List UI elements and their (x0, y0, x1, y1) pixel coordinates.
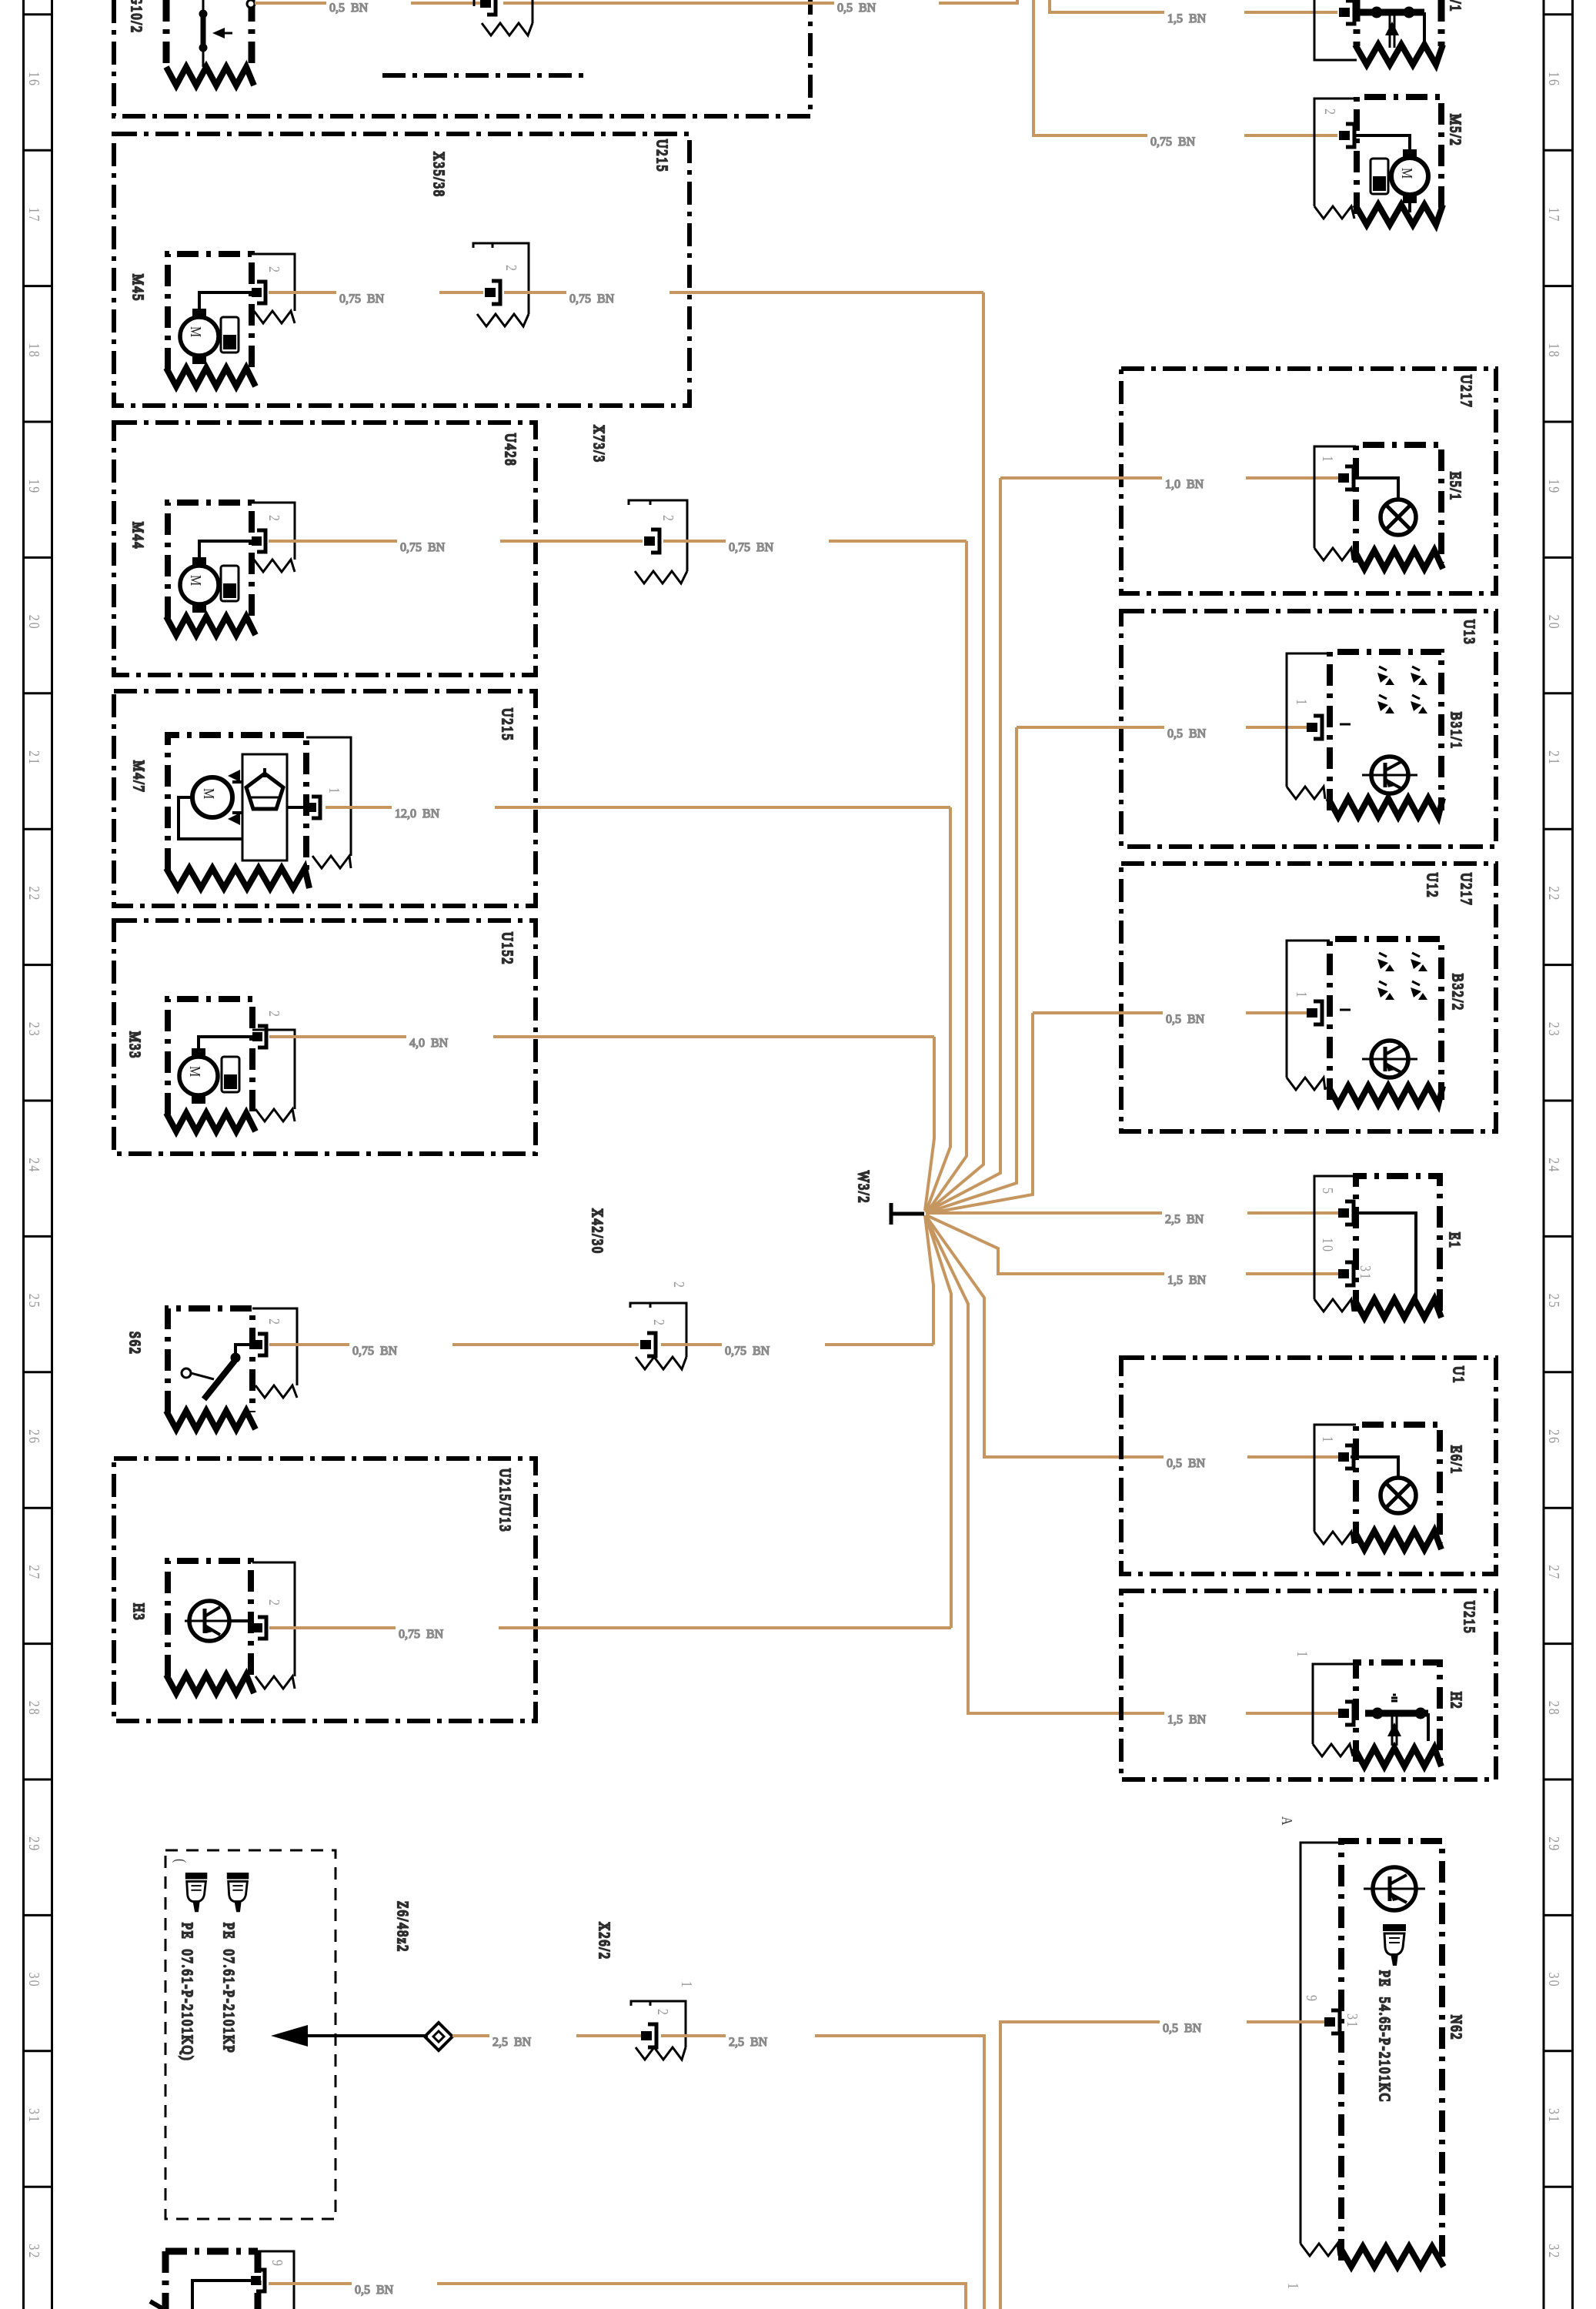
wire label 0,5 BN (left) (329, 2, 369, 15)
pin number 2 (M5/2) (1322, 109, 1339, 116)
ground sawtooth under E6/1 (1354, 1531, 1441, 1549)
wire 2,5 BN W3/2 to E1 pin 5 (926, 1211, 1338, 1215)
dash-dot separator line segment (382, 73, 583, 78)
group box U215/U13 (H3) (114, 1459, 536, 1721)
plug glyph M45 (221, 317, 239, 353)
wire M5/2 pin to motor (1355, 135, 1410, 149)
wire label 1,5 BN (E1) (1167, 1274, 1207, 1287)
wire E6/1 pin to lamp (1351, 1457, 1398, 1478)
svg-text:U217: U217 (1458, 873, 1475, 907)
svg-text:0,5 BN: 0,5 BN (329, 2, 369, 15)
pin number 2 (S62) (266, 1318, 283, 1326)
wire 0,75 BN S62 to X42/30 (269, 1343, 639, 1346)
svg-text:21: 21 (26, 750, 43, 766)
svg-text:25: 25 (26, 1294, 43, 1309)
svg-text:2,5 BN: 2,5 BN (729, 2036, 768, 2049)
svg-text:1: 1 (1294, 991, 1311, 999)
connector X42/30 pin 2 (640, 1333, 656, 1356)
svg-text:18: 18 (1546, 343, 1563, 359)
housing outline H3 (252, 1562, 295, 1689)
component S62 box (168, 1308, 252, 1412)
svg-text:31: 31 (1546, 2108, 1563, 2124)
ground sawtooth under W2/1 (1355, 45, 1443, 65)
svg-text:0,75 BN: 0,75 BN (1150, 135, 1196, 149)
wire label 0,5 BN (right) (837, 2, 876, 15)
LED symbols B31/1 (1377, 667, 1427, 713)
svg-text:29: 29 (26, 1836, 43, 1852)
svg-text:2: 2 (651, 1319, 668, 1327)
svg-text:2: 2 (266, 1318, 283, 1326)
housing outline B32/2 (1287, 941, 1330, 1090)
component E1 box (1356, 1176, 1440, 1312)
connector X73/3 pin 2 (644, 530, 659, 553)
label E5/1 (1447, 472, 1464, 501)
label N62 (1448, 2015, 1465, 2041)
wire M44 motor to pin (199, 541, 252, 557)
wire 0,75 BN M44 to X73/3 (269, 540, 643, 543)
svg-text:2: 2 (266, 515, 283, 523)
svg-text:32: 32 (1546, 2244, 1563, 2259)
wire 0,75 BN M45 to X35/38 (269, 291, 483, 294)
component E5/1 box (1356, 445, 1441, 563)
svg-text:19: 19 (26, 479, 43, 494)
switch symbol S62 (182, 1345, 252, 1399)
svg-text:0,5 BN: 0,5 BN (1167, 727, 1207, 740)
svg-text:28: 28 (1546, 1701, 1563, 1716)
svg-text:B32/2: B32/2 (1450, 974, 1467, 1011)
svg-text:24: 24 (1546, 1158, 1563, 1173)
svg-text:H3: H3 (131, 1603, 148, 1622)
svg-text:M: M (188, 326, 205, 339)
svg-text:(: ( (172, 1859, 189, 1864)
group box U217 (E5/1) (1121, 369, 1496, 593)
pin number 9 (bottom) (269, 2260, 286, 2267)
ruler right column scale 16-32 (1544, 0, 1573, 2309)
svg-text:1: 1 (1294, 1651, 1311, 1659)
housing outline M5/2 (1314, 99, 1357, 219)
wire M45 motor to pin (199, 292, 252, 309)
wire M45 vertical to ground node W3/2 (927, 292, 983, 1212)
wire label 0,75 BN (S62 right) (725, 1345, 770, 1358)
svg-text:1: 1 (1285, 2283, 1302, 2291)
pin number 9 (N62) (1304, 1995, 1321, 2003)
wire label 0,75 BN (M45 right) (569, 292, 615, 306)
wire 0,75 BN X73/3 to junction (663, 540, 967, 543)
wire 0,75 BN X42/30 to node (661, 1343, 933, 1346)
pin number 2 (H3) (266, 1599, 283, 1607)
wire S62 vertical up to ground node W3/2 (925, 1215, 933, 1345)
ground sawtooth under H3 (166, 1675, 254, 1693)
wire label 1,5 BN (H2) (1167, 1713, 1207, 1726)
pin 1 of M4/7 (306, 797, 320, 818)
group box U215 (H2) (1121, 1591, 1496, 1779)
svg-text:E5/1: E5/1 (1447, 472, 1464, 501)
ground sawtooth under G10/2 (166, 67, 254, 85)
svg-text:2: 2 (655, 2009, 672, 2017)
reference dashed box PE (165, 1850, 336, 2219)
ground sawtooth under E5/1 (1354, 550, 1443, 569)
svg-text:H2: H2 (1448, 1692, 1465, 1710)
component M45 box (168, 254, 252, 369)
label U215 (H2) (1461, 1601, 1478, 1635)
label W2/1 (partial) (1447, 0, 1464, 12)
label X73/3 (591, 425, 608, 463)
svg-text:0,5 BN: 0,5 BN (1167, 1457, 1206, 1470)
pin 9 of N62 (1324, 2010, 1340, 2033)
svg-text:2,5 BN: 2,5 BN (492, 2036, 532, 2049)
wires inside M4/7 (179, 782, 306, 839)
pin 2 of M33 (252, 1026, 266, 1048)
wire M33 vertical to ground node W3/2 (925, 1037, 934, 1211)
svg-text:U1: U1 (1451, 1366, 1467, 1385)
component N62 box (1341, 1841, 1442, 2261)
pump symbol M4/7 (242, 754, 287, 860)
svg-text:M5/2: M5/2 (1447, 114, 1464, 147)
label U215/U13 (497, 1469, 514, 1533)
svg-text:0,5 BN: 0,5 BN (837, 2, 876, 15)
svg-text:M33: M33 (127, 1031, 144, 1059)
label M5/2 (1447, 114, 1464, 147)
svg-text:M: M (1399, 168, 1416, 180)
svg-text:M: M (188, 575, 205, 587)
housing outline M4/7 (306, 737, 351, 868)
svg-text:2: 2 (266, 266, 283, 274)
pin number 2 (X35/38) (503, 265, 520, 272)
ground sawtooth under M44 (166, 617, 255, 635)
open paren PE (172, 1859, 189, 1864)
svg-text:N62: N62 (1448, 2015, 1465, 2041)
motor symbol M4/7 (192, 770, 240, 825)
svg-text:4,0 BN: 4,0 BN (409, 1037, 449, 1050)
marker A (N62) (1279, 1816, 1296, 1827)
wire label 0,75 BN (H3) (399, 1628, 444, 1641)
pin 5 of E1 (1338, 1201, 1354, 1225)
svg-text:22: 22 (1546, 886, 1563, 901)
label U217 (B32/2) (1458, 873, 1475, 907)
group box U13 (B31/1) (1121, 611, 1496, 847)
housing outline E6/1 (1314, 1425, 1356, 1544)
label U428 (503, 433, 519, 467)
svg-text:0,75 BN: 0,75 BN (339, 292, 385, 306)
wire label 2,5 BN (left) (492, 2036, 532, 2049)
svg-text:PE 07.61-P-2101KP: PE 07.61-P-2101KP (221, 1923, 238, 2054)
ground sawtooth under H2 (1354, 1748, 1441, 1766)
pin number 1 (E5/1) (1320, 456, 1337, 463)
minus mark B32/2 (1340, 1009, 1351, 1011)
label M44 (130, 522, 147, 550)
ground sawtooth under N62 (1340, 2247, 1444, 2267)
label M45 (130, 274, 147, 302)
group box U428 (M44) (114, 423, 536, 675)
wire 0,5 BN to B31/1 (926, 727, 1307, 1213)
svg-text:0,5 BN: 0,5 BN (355, 2284, 394, 2297)
svg-text:0,75 BN: 0,75 BN (399, 1628, 444, 1641)
svg-text:0,5 BN: 0,5 BN (1166, 1013, 1205, 1026)
housing outline E1 (1314, 1176, 1356, 1312)
pin 31 of E1 (1338, 1262, 1354, 1285)
plug glyph M5/2 (1371, 159, 1388, 194)
svg-text:2: 2 (1322, 109, 1339, 116)
svg-text:30: 30 (1546, 1973, 1563, 1988)
hand symbol in N62 (1383, 1924, 1406, 1966)
svg-text:23: 23 (1546, 1022, 1563, 1038)
ground sawtooth under M5/2 (1355, 205, 1443, 225)
svg-text:1,5 BN: 1,5 BN (1167, 12, 1207, 25)
svg-text:A: A (1279, 1816, 1296, 1827)
pin number 2 (X26/2) (655, 2009, 672, 2017)
pin 1 of B32/2 (1307, 1001, 1322, 1024)
svg-text:25: 25 (1546, 1294, 1563, 1309)
wire 0,75 BN H3 (269, 1626, 951, 1629)
pin of W2/1 (1339, 1, 1354, 24)
label U217 (1458, 375, 1475, 409)
wire label 12,0 BN (395, 807, 440, 820)
wire 0,75 BN from top edge to M5/2 (1033, 0, 1337, 135)
housing outline M45 (252, 254, 295, 323)
pin label 31 (E1) (1357, 1265, 1374, 1281)
pin 1 of E6/1 (1338, 1445, 1354, 1469)
diamond symbol Z6/48z2 (425, 2023, 452, 2050)
svg-text:0,75 BN: 0,75 BN (729, 541, 774, 554)
label PE 54.65-P-2101KC (1377, 1970, 1394, 2103)
svg-text:20: 20 (1546, 615, 1563, 630)
svg-text:24: 24 (26, 1158, 43, 1173)
wire E1 internal (1354, 1213, 1416, 1300)
label U12 (B32/2) (1424, 873, 1441, 899)
lamp symbol E6/1 (1381, 1478, 1416, 1513)
pin label 31 (N62) (1344, 2013, 1361, 2029)
wire 1,5 BN W3/2 to H2 (927, 1218, 1338, 1713)
svg-text:29: 29 (1546, 1836, 1563, 1852)
pin number 2 (M45) (266, 266, 283, 274)
label U215 (M4/7) (499, 708, 516, 742)
wire label 0,75 BN (M44 right) (729, 541, 774, 554)
sawtooth fragment bottom-left corner (150, 2301, 163, 2309)
group box U215 (M4/7) (114, 691, 536, 906)
pin number 1 (B31/1) (1294, 699, 1311, 707)
group box U217/U12 (B32/2) (1121, 864, 1496, 1131)
wire 1,0 BN to E5/1 (926, 478, 1338, 1212)
LED symbols B32/2 (1377, 953, 1427, 1000)
ground node W3/2 symbol (891, 1203, 924, 1225)
motor symbol M45 (180, 309, 219, 364)
svg-text:31: 31 (26, 2108, 43, 2124)
component B31/1 box (1330, 652, 1441, 810)
svg-text:Z6/48z2: Z6/48z2 (395, 1901, 412, 1953)
svg-text:M: M (201, 788, 218, 800)
svg-text:S62: S62 (127, 1332, 144, 1355)
svg-text:30: 30 (26, 1973, 43, 1988)
svg-text:17: 17 (26, 207, 43, 222)
component H2 box (1356, 1662, 1440, 1762)
svg-text:0,75 BN: 0,75 BN (569, 292, 615, 306)
svg-text:18: 18 (26, 343, 43, 359)
svg-text:U215: U215 (499, 708, 516, 742)
svg-text:E1: E1 (1447, 1232, 1464, 1249)
wire label 1,0 BN (E5/1) (1165, 478, 1204, 491)
svg-text:0,75 BN: 0,75 BN (352, 1345, 398, 1358)
svg-text:28: 28 (26, 1701, 43, 1716)
hand symbol PE right (227, 1873, 249, 1912)
svg-text:0,75 BN: 0,75 BN (725, 1345, 770, 1358)
wire 0,5 BN to B32/2 (926, 1013, 1307, 1214)
wire label 2,5 BN (right) (729, 2036, 768, 2049)
wire 0,75 BN X35/38 to junction (504, 291, 983, 294)
ground sawtooth under M33 (166, 1113, 255, 1131)
group box U215 (M45) (114, 134, 689, 406)
pin number 2 (X73/3) (660, 515, 677, 523)
component W2/1 box (partial) (1357, 0, 1441, 46)
svg-text:U215/U13: U215/U13 (497, 1469, 514, 1533)
pin number 1 outer (X26/2) (679, 1981, 696, 1989)
svg-text:U217: U217 (1458, 375, 1475, 409)
svg-text:E6/1: E6/1 (1448, 1445, 1465, 1475)
label B32/2 (1450, 974, 1467, 1011)
svg-text:X73/3: X73/3 (591, 425, 608, 463)
connector X35/38 housing (473, 243, 529, 326)
svg-text:U152: U152 (499, 932, 516, 966)
label U1 (1451, 1366, 1467, 1385)
label X35/38 (431, 152, 448, 198)
svg-text:31: 31 (1357, 1265, 1374, 1281)
pin number 2 (M44) (266, 515, 283, 523)
label M4/7 (131, 760, 148, 794)
label H2 (1448, 1692, 1465, 1710)
pin number 2 (M33) (266, 1011, 283, 1018)
connector top-center pin (480, 0, 496, 15)
lamp symbol E5/1 (1381, 500, 1416, 535)
motor symbol M44 (180, 557, 219, 613)
svg-text:U215: U215 (1461, 1601, 1478, 1635)
label X42/30 (589, 1208, 606, 1255)
pin 2 of H3 (252, 1617, 266, 1639)
wire 1,5 BN W3/2 to E1 pin 31 (927, 1215, 1338, 1274)
pin number 2 outer (X42/30) (671, 1281, 688, 1289)
svg-text:26: 26 (26, 1429, 43, 1445)
housing outline W2/1 (1314, 0, 1357, 60)
component M33 box (168, 999, 252, 1114)
wire label 0,5 BN (bottom) (355, 2284, 394, 2297)
svg-text:U215: U215 (654, 139, 671, 173)
wire label 0,5 BN (N62) (1163, 2022, 1202, 2035)
svg-text:M4/7: M4/7 (131, 760, 148, 794)
ruler left column scale 16-32 (24, 0, 52, 2309)
svg-text:X42/30: X42/30 (589, 1208, 606, 1255)
pin 1 of E5/1 (1338, 466, 1354, 490)
plug glyph M44 (221, 566, 239, 601)
svg-text:1: 1 (1294, 699, 1311, 707)
svg-text:1: 1 (1320, 456, 1337, 463)
svg-text:1,5 BN: 1,5 BN (1167, 1713, 1207, 1726)
wire label 0,75 BN (M45 left) (339, 292, 385, 306)
label PE 07.61-P-2101KQ (178, 1923, 195, 2062)
wire M44 vertical to ground node W3/2 (927, 541, 967, 1213)
horn symbol H2 (1365, 1695, 1428, 1746)
pin 2 of M5/2 (1339, 124, 1354, 147)
svg-text:32: 32 (26, 2244, 43, 2259)
component M5/2 box (1357, 97, 1441, 214)
G10/2 potentiometer bar symbol (199, 0, 232, 67)
housing outline bottom component (258, 2251, 294, 2309)
connector top-center (partial) housing (474, 0, 533, 35)
svg-text:23: 23 (26, 1022, 43, 1038)
housing outline S62 (252, 1308, 297, 1398)
housing outline N62 (1301, 1843, 1341, 2256)
pin 2 of M45 (252, 282, 265, 303)
svg-text:1: 1 (326, 787, 343, 795)
horn symbol W2/1 (1355, 7, 1424, 48)
svg-text:W3/2: W3/2 (856, 1171, 873, 1205)
label X26/2 (596, 1922, 613, 1960)
pin 2 of S62 (252, 1334, 266, 1355)
ground wire arrow Z6/48z2 (271, 2025, 428, 2047)
motor symbol M33 (179, 1048, 218, 1104)
connector X35/38 pin 2 (485, 281, 500, 304)
connector X26/2 pin 2 (641, 2024, 656, 2047)
svg-text:2/1: 2/1 (1447, 0, 1464, 12)
svg-text:19: 19 (1546, 479, 1563, 494)
wire label 0,75 BN (M44 left) (400, 541, 446, 554)
svg-text:12,0 BN: 12,0 BN (395, 807, 440, 820)
svg-text:17: 17 (1546, 207, 1563, 222)
label G10/2 (129, 0, 145, 34)
wire 0,5 BN W3/2 to E6/1 (927, 1217, 1338, 1457)
svg-text:10: 10 (1320, 1238, 1337, 1253)
wire M33 motor to pin (199, 1037, 252, 1048)
svg-text:16: 16 (1546, 72, 1563, 87)
component box bottom-left (partial) (165, 2251, 258, 2309)
label E1 (1447, 1232, 1464, 1249)
plug glyph M33 (222, 1057, 239, 1092)
pin 9 of bottom component (251, 2270, 265, 2291)
label S62 (127, 1332, 144, 1355)
wire 4,0 BN M33 (269, 1035, 934, 1038)
continuation marker 1 (N62 bottom) (1285, 2283, 1302, 2291)
wire label 0,5 BN (E6/1) (1167, 1457, 1206, 1470)
component E6/1 box (1356, 1425, 1440, 1543)
svg-text:U13: U13 (1461, 620, 1478, 646)
housing outline M44 (252, 503, 295, 572)
wire 0,5 BN to N62 from page bottom (1000, 2022, 1324, 2309)
housing outline M33 (252, 1030, 295, 1121)
label U13 (1461, 620, 1478, 646)
svg-text:2: 2 (503, 265, 520, 272)
pin number 10 (E1) (1320, 1238, 1337, 1253)
svg-text:B31/1: B31/1 (1448, 712, 1465, 750)
ground sawtooth under B31/1 (1328, 798, 1443, 817)
svg-text:5: 5 (1320, 1188, 1337, 1195)
svg-text:M45: M45 (130, 274, 147, 302)
motor symbol M5/2 (1391, 149, 1428, 212)
label E6/1 (1448, 1445, 1465, 1475)
wire 1,5 BN from top edge to W2/1 (1050, 0, 1337, 12)
wire 2,5 BN X26/2 to page bottom (661, 2036, 984, 2309)
svg-text:M44: M44 (130, 522, 147, 550)
wire label 1,5 BN (W2/1) (1167, 12, 1207, 25)
svg-text:26: 26 (1546, 1429, 1563, 1445)
buzzer symbol H3 (185, 1601, 234, 1641)
label H3 (131, 1603, 148, 1622)
photo transistor symbol B32/2 (1362, 1041, 1417, 1078)
hand symbol PE left (185, 1873, 207, 1912)
component M4/7 box (168, 735, 306, 870)
component H3 box (168, 1561, 251, 1676)
group box U152 (M33) (114, 921, 536, 1154)
svg-text:16: 16 (26, 72, 43, 87)
svg-text:PE 07.61-P-2101KQ): PE 07.61-P-2101KQ) (178, 1923, 195, 2062)
photo transistor symbol N62 (1364, 1867, 1425, 1910)
ground sawtooth under M45 (166, 368, 255, 386)
